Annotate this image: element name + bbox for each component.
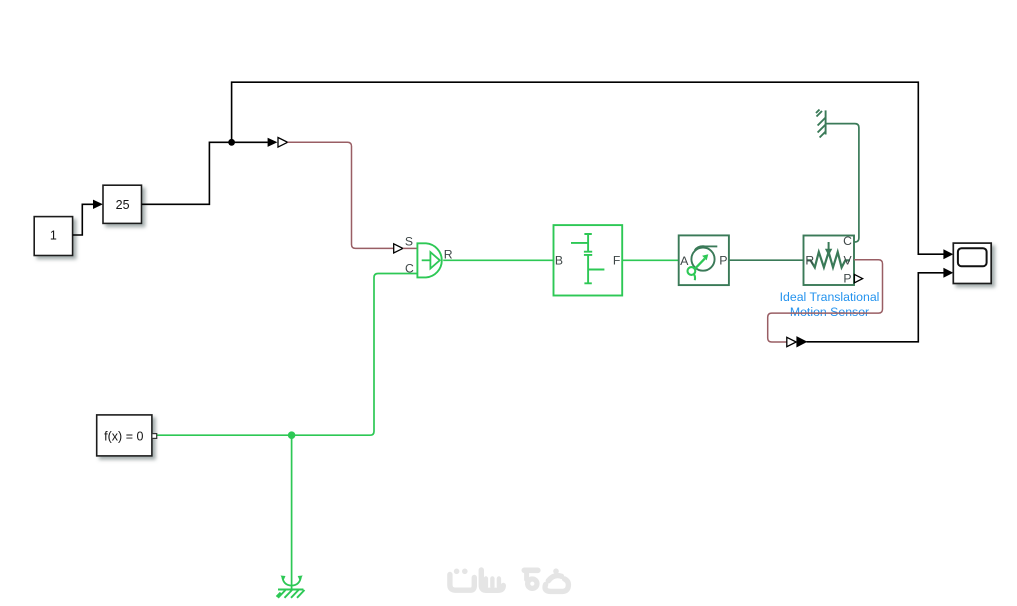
svg-text:25: 25	[116, 198, 130, 212]
mechanical reference (bottom)	[277, 576, 305, 598]
wire: solver/f(x) net to source C port (green)	[157, 274, 418, 436]
svg-text:F: F	[613, 254, 620, 268]
force source U1 (D-shaped block)	[405, 234, 453, 277]
arrowhead leaving converter	[796, 336, 807, 347]
svg-text:C: C	[843, 234, 852, 248]
arrowhead at converter input	[268, 138, 278, 147]
arrowhead into scope input 2	[943, 268, 953, 278]
translational damper block	[679, 235, 729, 285]
wire: hard stop F to damper A (green)	[622, 259, 679, 261]
hollow port triangle at sensor P (unconnected)	[854, 274, 862, 282]
svg-text:Ideal Translational: Ideal Translational	[780, 290, 880, 304]
svg-text:R: R	[805, 254, 814, 268]
svg-text:B: B	[555, 254, 563, 268]
svg-text:f(x) = 0: f(x) = 0	[104, 429, 143, 443]
svg-text:A: A	[680, 254, 689, 268]
brown stub into S port	[403, 247, 418, 249]
wire: top reference to sensor C (dark green)	[826, 124, 859, 242]
wire: source R to hard stop B (green)	[443, 259, 553, 261]
wire: sensor V to PS-converter (brown)	[768, 260, 883, 342]
arrowhead into gain 25	[93, 200, 103, 209]
hollow port triangle (PS converter input)	[278, 138, 288, 148]
mechanical reference (top)	[816, 110, 826, 138]
hollow port triangle at S port	[394, 244, 403, 253]
ideal translational motion sensor block	[804, 234, 855, 286]
hollow port triangle at PS-Simulink converter	[787, 337, 796, 346]
wire: junction to scope input 1	[232, 82, 944, 254]
junction node (branch to scope)	[228, 139, 235, 146]
physical signal wire (brown) converter to source S port	[288, 142, 394, 248]
wire: junction to mechanical reference (green)	[291, 435, 293, 589]
wire: damper P to sensor R (dark green)	[729, 259, 804, 261]
arrowhead into scope input 1	[943, 249, 953, 259]
solver configuration block f(x)=0	[97, 415, 157, 456]
wire: constant 1 to gain 25	[73, 204, 94, 235]
wire: gain 25 to converter input	[142, 142, 268, 204]
constant block "1"	[34, 217, 72, 256]
scope block	[953, 243, 991, 283]
translational hard stop block	[554, 225, 623, 295]
wire: converter to scope input 2	[807, 273, 944, 342]
junction node on green net	[288, 431, 296, 439]
svg-text:Motion Sensor: Motion Sensor	[790, 305, 869, 319]
svg-text:P: P	[719, 254, 727, 268]
svg-text:1: 1	[50, 228, 57, 242]
svg-text:S: S	[405, 234, 413, 248]
watermark (khamsat logo)	[450, 568, 569, 591]
svg-text:P: P	[843, 272, 851, 286]
gain block "25"	[103, 185, 142, 223]
svg-text:V: V	[844, 254, 853, 268]
